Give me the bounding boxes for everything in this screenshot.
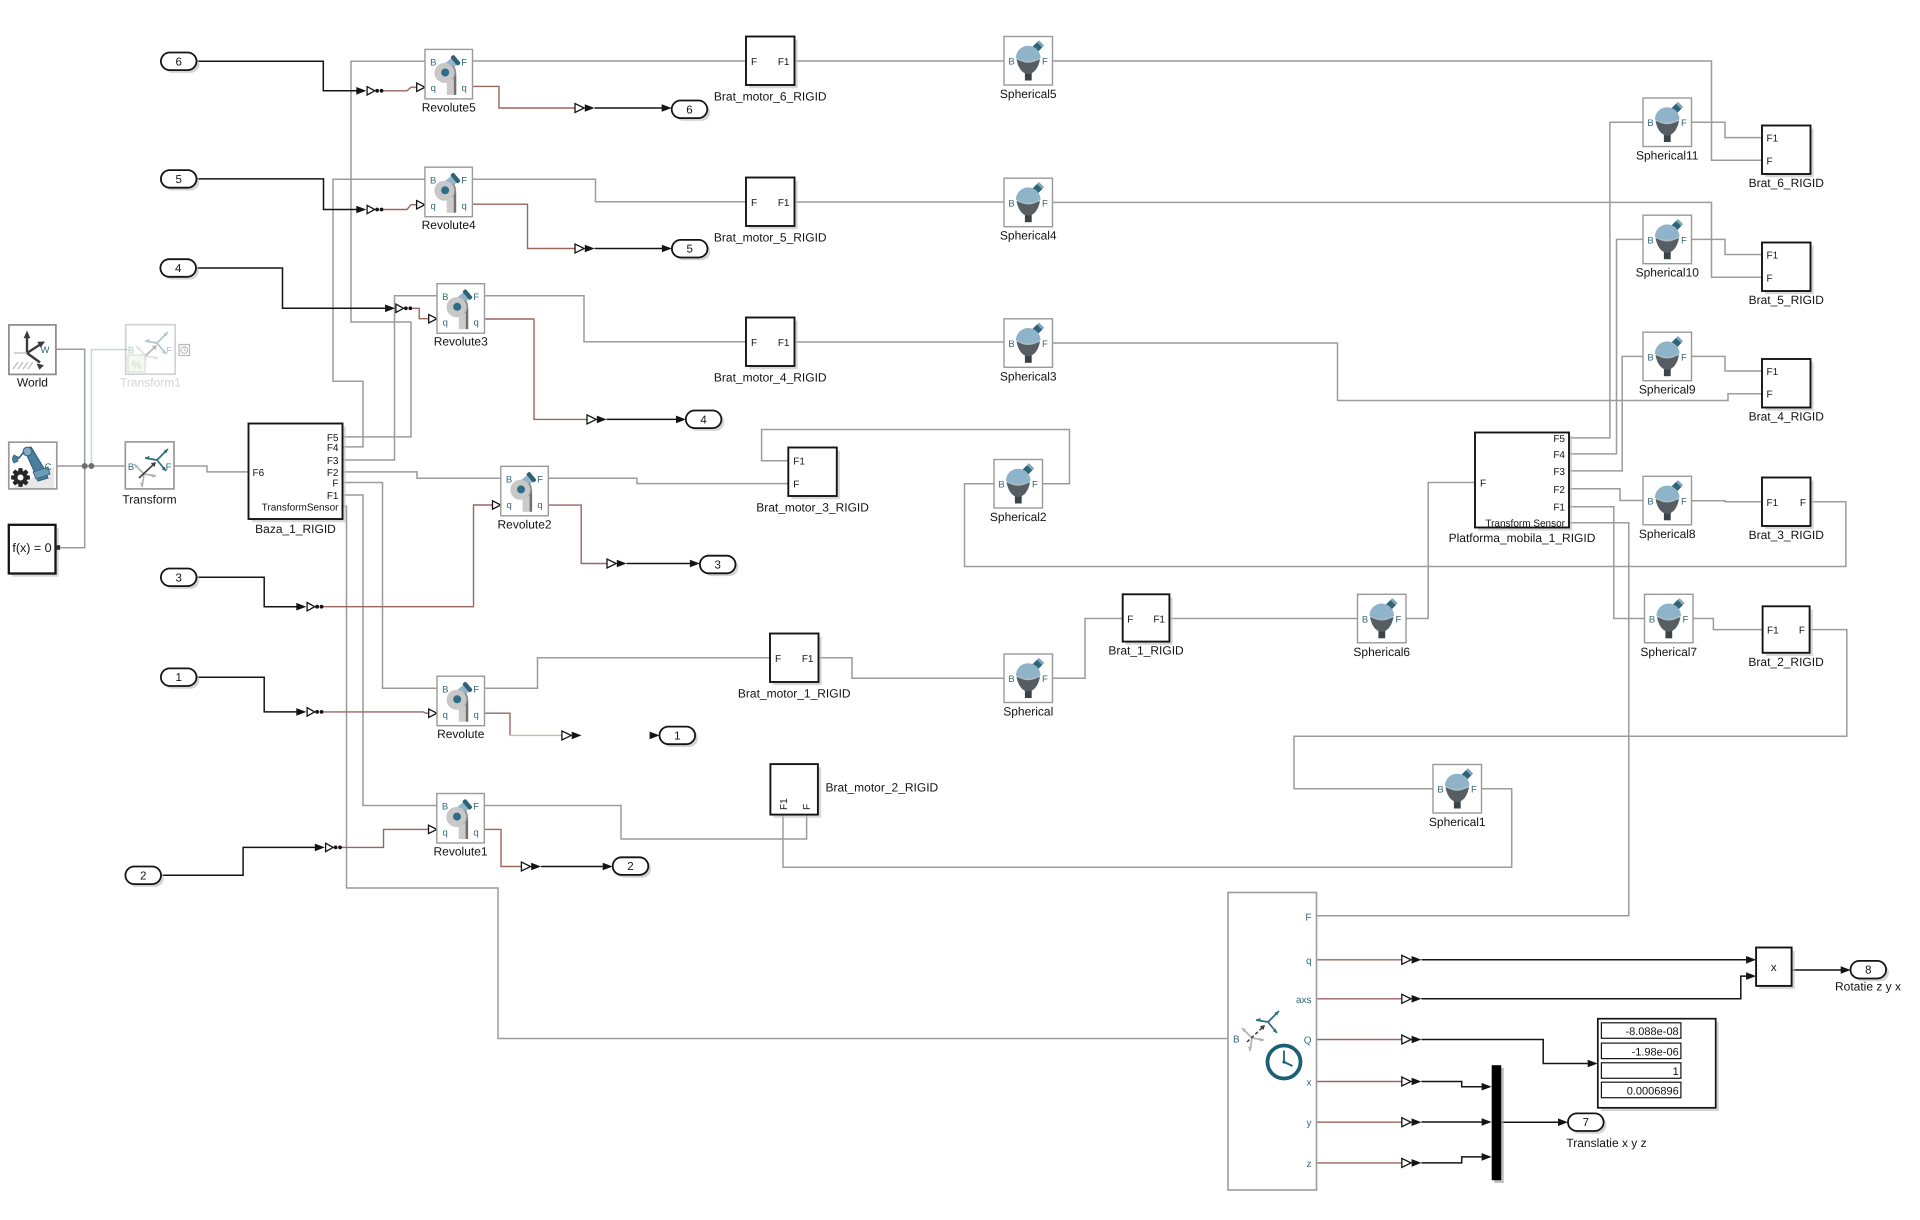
svg-text:Brat_motor_2_RIGID: Brat_motor_2_RIGID — [826, 781, 939, 795]
svg-text:4: 4 — [175, 263, 182, 275]
svg-text:q: q — [461, 201, 466, 212]
svg-text:F1: F1 — [1767, 251, 1779, 262]
svg-text:q: q — [474, 710, 479, 721]
svg-text:4: 4 — [700, 414, 707, 426]
svg-text:Brat_motor_3_RIGID: Brat_motor_3_RIGID — [756, 501, 869, 515]
svg-text:Revolute2: Revolute2 — [498, 517, 552, 531]
svg-text:F1: F1 — [778, 198, 790, 209]
svg-text:Spherical8: Spherical8 — [1639, 527, 1696, 541]
svg-text:F2: F2 — [327, 468, 339, 479]
svg-text:Q: Q — [1304, 1036, 1312, 1047]
svg-text:B: B — [1647, 235, 1653, 246]
svg-text:2: 2 — [627, 861, 633, 873]
svg-text:6: 6 — [686, 104, 692, 116]
svg-text:F3: F3 — [327, 456, 339, 467]
svg-text:F: F — [166, 462, 172, 473]
svg-text:F: F — [751, 338, 757, 349]
svg-text:F: F — [461, 58, 467, 69]
svg-text:F: F — [1681, 235, 1687, 246]
svg-text:-8.088e-08: -8.088e-08 — [1625, 1026, 1678, 1038]
svg-text:Spherical11: Spherical11 — [1636, 149, 1699, 163]
svg-text:F: F — [1480, 479, 1486, 490]
svg-text:B: B — [442, 684, 448, 695]
svg-text:Rotatie z y x: Rotatie z y x — [1835, 980, 1901, 994]
svg-text:F: F — [461, 175, 467, 186]
svg-text:B: B — [1437, 785, 1443, 796]
svg-text:6: 6 — [175, 56, 181, 68]
svg-text:B: B — [998, 480, 1004, 491]
svg-text:F1: F1 — [802, 654, 814, 665]
svg-text:F5: F5 — [1553, 434, 1565, 445]
svg-text:F4: F4 — [327, 443, 339, 454]
svg-text:F1: F1 — [779, 798, 790, 810]
svg-text:f(x) = 0: f(x) = 0 — [12, 541, 51, 555]
svg-text:F6: F6 — [253, 468, 265, 479]
svg-text:F: F — [1395, 615, 1401, 626]
svg-text:F: F — [1471, 785, 1477, 796]
svg-text:q: q — [442, 827, 447, 838]
svg-text:q: q — [443, 318, 448, 329]
svg-text:B: B — [430, 175, 436, 186]
svg-text:TransformSensor: TransformSensor — [262, 502, 340, 513]
svg-text:Brat_3_RIGID: Brat_3_RIGID — [1749, 528, 1825, 542]
svg-text:B: B — [1008, 339, 1014, 350]
svg-text:Brat_motor_1_RIGID: Brat_motor_1_RIGID — [738, 687, 851, 701]
svg-text:B: B — [1647, 118, 1653, 129]
svg-text:F: F — [802, 804, 813, 810]
svg-text:Brat_4_RIGID: Brat_4_RIGID — [1749, 410, 1825, 424]
svg-text:F: F — [332, 479, 338, 490]
svg-text:F4: F4 — [1553, 450, 1565, 461]
svg-text:B: B — [1362, 615, 1368, 626]
svg-text:B: B — [1008, 674, 1014, 685]
svg-text:Translatie x y z: Translatie x y z — [1566, 1136, 1646, 1150]
svg-text:1: 1 — [674, 730, 680, 742]
svg-text:F: F — [473, 802, 479, 813]
svg-text:F: F — [1042, 674, 1048, 685]
svg-text:Brat_motor_5_RIGID: Brat_motor_5_RIGID — [714, 231, 827, 245]
svg-text:1: 1 — [1673, 1066, 1679, 1078]
svg-text:F: F — [793, 480, 799, 491]
svg-text:F1: F1 — [1767, 626, 1779, 637]
svg-text:F1: F1 — [1553, 503, 1565, 514]
svg-text:Spherical4: Spherical4 — [1000, 229, 1057, 243]
svg-text:B: B — [430, 58, 436, 69]
svg-text:F: F — [1042, 57, 1048, 68]
svg-text:F: F — [751, 57, 757, 68]
svg-text:5: 5 — [175, 174, 181, 186]
svg-text:B: B — [1008, 57, 1014, 68]
svg-text:F1: F1 — [1767, 134, 1779, 145]
svg-text:F: F — [537, 475, 543, 486]
svg-text:World: World — [17, 376, 48, 390]
svg-text:q: q — [537, 500, 542, 511]
svg-text:Spherical6: Spherical6 — [1353, 645, 1410, 659]
svg-text:Brat_1_RIGID: Brat_1_RIGID — [1108, 644, 1184, 658]
svg-text:F: F — [751, 198, 757, 209]
svg-text:Brat_6_RIGID: Brat_6_RIGID — [1749, 176, 1825, 190]
svg-text:F: F — [1042, 198, 1048, 209]
svg-text:B: B — [128, 462, 134, 473]
svg-text:axs: axs — [1296, 995, 1312, 1006]
svg-text:B: B — [1647, 352, 1653, 363]
svg-text:Revolute: Revolute — [437, 727, 485, 741]
svg-text:Revolute5: Revolute5 — [422, 100, 476, 114]
svg-text:F1: F1 — [1153, 615, 1165, 626]
svg-text:F: F — [1042, 339, 1048, 350]
svg-text:Revolute1: Revolute1 — [434, 845, 488, 859]
svg-text:F: F — [775, 654, 781, 665]
svg-text:F: F — [1681, 118, 1687, 129]
svg-text:F1: F1 — [793, 457, 805, 468]
svg-text:Brat_motor_4_RIGID: Brat_motor_4_RIGID — [714, 371, 827, 385]
svg-text:y: y — [1307, 1118, 1312, 1129]
svg-text:F: F — [1799, 626, 1805, 637]
svg-text:Spherical9: Spherical9 — [1639, 383, 1696, 397]
svg-text:C: C — [45, 462, 52, 473]
svg-text:F1: F1 — [1767, 367, 1779, 378]
svg-text:q: q — [474, 318, 479, 329]
svg-text:1: 1 — [175, 672, 181, 684]
svg-text:Platforma_mobila_1_RIGID: Platforma_mobila_1_RIGID — [1449, 531, 1596, 545]
svg-text:F: F — [1767, 273, 1773, 284]
svg-text:Revolute4: Revolute4 — [422, 218, 476, 232]
svg-text:q: q — [473, 827, 478, 838]
svg-text:B: B — [1233, 1035, 1240, 1046]
svg-text:B: B — [1008, 198, 1014, 209]
svg-text:F: F — [1681, 352, 1687, 363]
svg-text:B: B — [442, 292, 448, 303]
svg-text:F: F — [1681, 497, 1687, 508]
svg-text:F3: F3 — [1553, 467, 1565, 478]
svg-text:-1.98e-06: -1.98e-06 — [1632, 1046, 1679, 1058]
svg-text:Transform1: Transform1 — [120, 376, 181, 390]
svg-text:q: q — [431, 83, 436, 94]
svg-text:q: q — [462, 83, 467, 94]
svg-text:F: F — [1767, 390, 1773, 401]
svg-text:F1: F1 — [327, 491, 339, 502]
svg-text:Brat_5_RIGID: Brat_5_RIGID — [1749, 293, 1825, 307]
svg-text:Brat_2_RIGID: Brat_2_RIGID — [1748, 655, 1824, 669]
svg-text:F: F — [473, 684, 479, 695]
svg-text:Spherical10: Spherical10 — [1636, 266, 1700, 280]
svg-text:F: F — [1682, 615, 1688, 626]
svg-text:x: x — [1307, 1078, 1312, 1089]
svg-text:W: W — [41, 345, 50, 356]
svg-text:Spherical1: Spherical1 — [1429, 815, 1486, 829]
svg-text:5: 5 — [686, 244, 692, 256]
svg-text:F: F — [1127, 615, 1133, 626]
svg-text:q: q — [506, 500, 511, 511]
svg-text:F1: F1 — [778, 338, 790, 349]
svg-text:B: B — [506, 475, 512, 486]
svg-text:F: F — [473, 292, 479, 303]
svg-text:q: q — [431, 201, 436, 212]
svg-text:F1: F1 — [778, 57, 790, 68]
svg-text:x: x — [1771, 962, 1777, 974]
svg-text:0.0006896: 0.0006896 — [1627, 1085, 1679, 1097]
svg-text:Transform: Transform — [122, 493, 176, 507]
svg-text:Transform Sensor: Transform Sensor — [1485, 518, 1565, 529]
svg-text:Spherical2: Spherical2 — [990, 510, 1047, 524]
svg-text:Spherical5: Spherical5 — [1000, 87, 1057, 101]
svg-text:F: F — [1767, 156, 1773, 167]
svg-text:Revolute3: Revolute3 — [434, 335, 488, 349]
svg-text:q: q — [443, 710, 448, 721]
svg-text:B: B — [442, 802, 448, 813]
svg-text:B: B — [1649, 615, 1655, 626]
svg-text:z: z — [1307, 1159, 1312, 1170]
svg-text:B: B — [1647, 497, 1653, 508]
svg-text:q: q — [1306, 956, 1312, 967]
svg-text:F: F — [1800, 498, 1806, 509]
svg-text:Brat_motor_6_RIGID: Brat_motor_6_RIGID — [714, 90, 827, 104]
svg-text:Baza_1_RIGID: Baza_1_RIGID — [255, 522, 336, 536]
svg-text:Spherical3: Spherical3 — [1000, 369, 1057, 383]
svg-text:3: 3 — [714, 560, 720, 572]
svg-text:Spherical: Spherical — [1003, 705, 1053, 719]
svg-text:8: 8 — [1865, 965, 1871, 977]
svg-text:F1: F1 — [1767, 498, 1779, 509]
svg-text:F2: F2 — [1553, 485, 1565, 496]
svg-text:%: % — [132, 360, 142, 372]
svg-text:F: F — [166, 346, 172, 357]
svg-text:2: 2 — [140, 870, 146, 882]
svg-text:3: 3 — [175, 572, 181, 584]
svg-text:F: F — [1032, 480, 1038, 491]
svg-text:7: 7 — [1583, 1117, 1589, 1129]
svg-text:Spherical7: Spherical7 — [1640, 645, 1697, 659]
svg-text:F: F — [1305, 913, 1311, 924]
